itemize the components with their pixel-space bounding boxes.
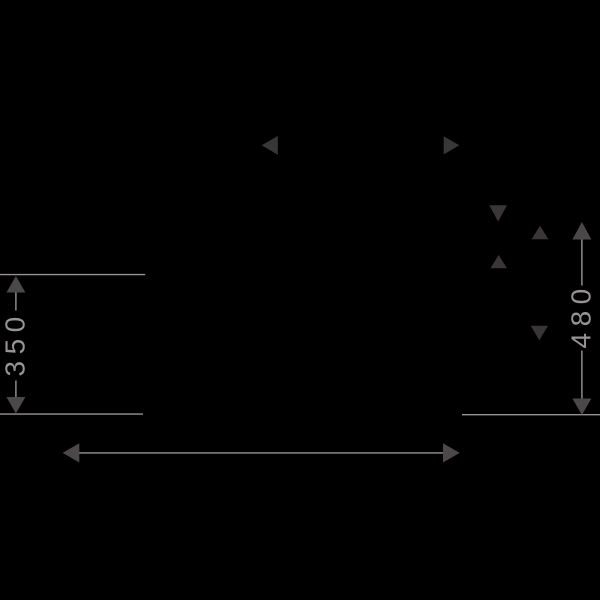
spout arrow left [262, 136, 278, 155]
dimension 480 arrow up [572, 222, 591, 240]
dimension bottom width line [78, 452, 444, 454]
dimension 350 vertical line upper segment [15, 292, 17, 311]
dimension 350 vertical line lower segment [15, 381, 17, 398]
handle arrow T2 up [532, 226, 549, 240]
wire top extension line left [0, 274, 145, 276]
handle arrow T3 up [490, 255, 507, 268]
spout arrow right [444, 136, 460, 154]
wire bottom extension line right [462, 414, 600, 416]
dimension bottom arrow left [63, 443, 80, 462]
svg-text:350: 350 [0, 310, 31, 376]
dimension 480 vertical line lower segment [581, 351, 583, 400]
handle arrow T4 down [531, 326, 548, 341]
dimension 350 arrow up [6, 276, 25, 293]
wire bottom extension line left [0, 413, 143, 415]
dimension 480 arrow down [572, 399, 591, 416]
dimension 350 arrow down [6, 397, 25, 414]
dimension 480 vertical line upper segment [581, 240, 583, 286]
dimension bottom arrow right [443, 443, 460, 462]
handle arrow T1 down [489, 205, 507, 221]
svg-text:480: 480 [566, 282, 597, 348]
